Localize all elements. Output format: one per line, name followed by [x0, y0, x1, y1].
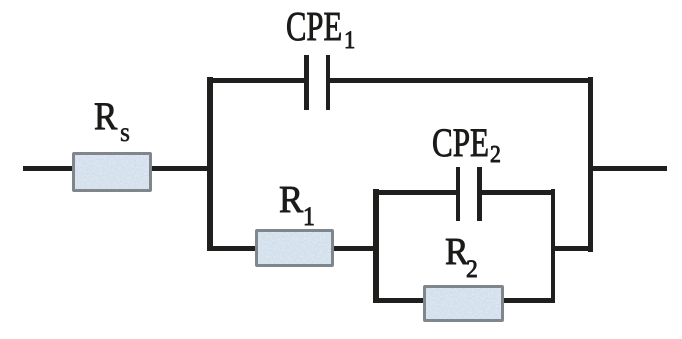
label Rs — [94, 98, 117, 137]
resistor R1 — [255, 229, 334, 267]
label CPE2 — [432, 123, 489, 163]
resistor R2 — [423, 285, 504, 322]
wire: output lead right — [590, 166, 667, 171]
wire: inner bottom right segment — [504, 298, 555, 303]
svg filter defs for resistor fill texture — [0, 0, 1, 1]
capacitor CPE2 left plate — [456, 167, 460, 221]
label R2 — [445, 233, 469, 271]
wire: inner top left segment — [373, 190, 457, 195]
wire: inner bottom left segment — [373, 298, 425, 303]
capacitor CPE1 left plate — [304, 55, 309, 110]
capacitor CPE1 right plate — [326, 55, 331, 110]
wire: right junction vertical — [588, 77, 593, 252]
wire: inner block right vertical — [551, 189, 555, 301]
resistor Rs — [72, 152, 152, 192]
wire: inner block to right junction — [551, 246, 592, 251]
wire: R1 to inner parallel block — [334, 246, 379, 251]
capacitor CPE2 right plate — [477, 167, 481, 221]
wire: top branch right segment — [330, 78, 592, 83]
label CPE1 — [286, 7, 342, 49]
wire: top branch left segment — [207, 78, 305, 83]
wire: left junction vertical — [207, 77, 212, 251]
wire: input lead left — [23, 166, 212, 171]
wire: inner top right segment — [481, 190, 553, 195]
wire: inner block left vertical — [373, 189, 379, 301]
label R1 — [279, 181, 303, 219]
wire: bottom branch from junction to R1 — [207, 246, 257, 251]
